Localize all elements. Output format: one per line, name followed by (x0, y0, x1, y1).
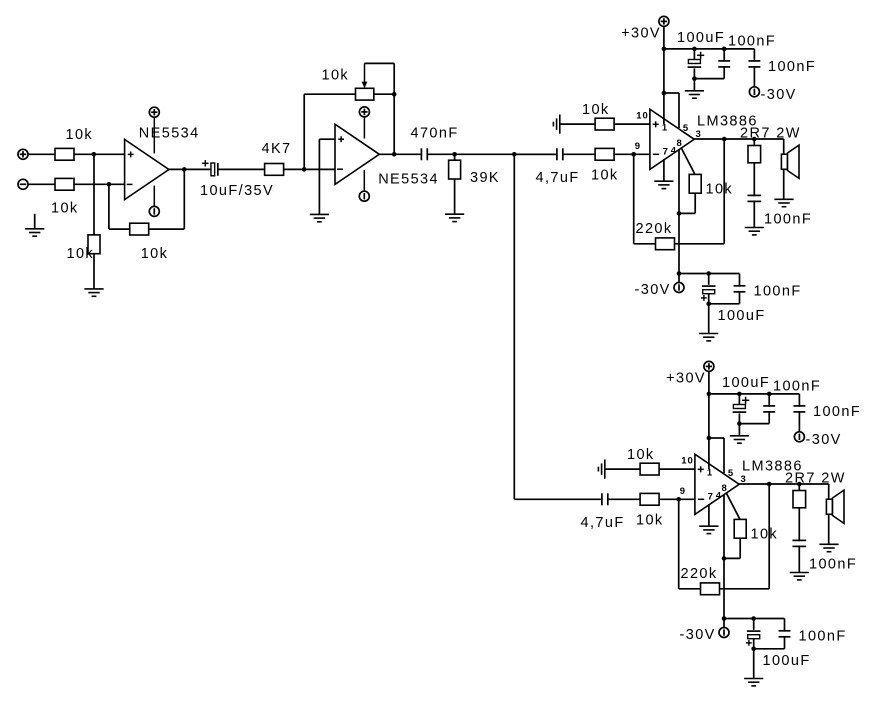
wire speaker to ground (channel 2) (828, 514, 830, 544)
svg-text:100uF: 100uF (677, 30, 725, 46)
ground (U3 +input) (channel 2) (598, 460, 604, 479)
U2 V- power pin (363, 170, 365, 191)
junction pin4 line / -30V rail (channel 2) (722, 616, 727, 621)
speaker LS2 (channel 2) (826, 490, 844, 523)
wire pot wiper to right terminal (top) (365, 62, 395, 64)
wire pin 5 branch down (channel 1) (678, 93, 680, 128)
junction +30V / pin 5 branch (channel 1) (662, 91, 667, 96)
wire pin 8 diagonal (channel 2) (726, 493, 740, 520)
wire supply caps bottom (channel 2) (739, 423, 769, 425)
wire +30V down to pin 1 (channel 2) (708, 371, 710, 469)
wire -30V caps to ground (channel 1) (708, 304, 710, 334)
potentiometer P1 wiper arrow (364, 63, 366, 81)
ground (below R3) (84, 289, 103, 296)
svg-text:470nF: 470nF (411, 126, 459, 142)
svg-text:10k: 10k (141, 246, 169, 262)
wire feedback up to output (channel 2) (768, 484, 770, 589)
capacitor C5 100nF (+30V rail) (channel 2) (762, 406, 776, 412)
U1 V- power pin (153, 186, 155, 207)
junction channel split node (512, 152, 517, 157)
svg-text:NE5534: NE5534 (139, 125, 200, 141)
svg-text:100nF: 100nF (728, 33, 776, 49)
junction U3 -input / 220k feedback (channel 2) (676, 497, 681, 502)
svg-text:10k: 10k (627, 447, 655, 463)
wire split node to C3 (channel 1) (514, 153, 557, 155)
wire through 100uF (channel 2) (738, 394, 740, 424)
capacitor C6 100nF (rail-to-rail) (channel 2) (792, 406, 806, 412)
wire through 100nF (channel 2) (768, 394, 770, 424)
junction supply caps bottom (channel 2) (737, 421, 742, 426)
terminal -30V (rail cap) (channel 2) (794, 432, 804, 442)
wire through 100nF rail-to-rail (channel 1) (753, 49, 755, 87)
junction 100uF top (-30V) (channel 2) (751, 616, 756, 621)
svg-text:100nF: 100nF (799, 628, 847, 644)
ground (speaker) (channel 1) (774, 199, 793, 206)
resistor R4 10k (U1 feedback) (130, 223, 149, 235)
svg-text:10k: 10k (706, 182, 734, 198)
resistor R2 10k (IN- series) (55, 178, 74, 190)
ground (U3 +input) (channel 1) (553, 115, 559, 134)
capacitor C9 100nF (-30V rail) (channel 2) (778, 631, 792, 637)
resistor R9 220k (feedback) (channel 1) (656, 238, 675, 250)
wire feedback up to output (channel 1) (723, 139, 725, 244)
wire mute resistor down (channel 1) (694, 175, 696, 214)
potentiometer P1 10k body (356, 88, 374, 100)
wire output to speaker (channel 1) (783, 139, 785, 154)
svg-text:-30V: -30V (806, 432, 842, 448)
svg-text:7: 7 (708, 492, 714, 503)
svg-text:10k: 10k (66, 127, 94, 143)
capacitor C3 4,7uF (channel 2) (602, 492, 608, 506)
svg-text:7: 7 (663, 147, 669, 158)
wire +30V supply cap rail (channel 2) (709, 393, 800, 395)
wire 220k horizontal (channel 2) (679, 588, 770, 590)
junction supply caps bottom (channel 1) (692, 76, 697, 81)
svg-text:100nF: 100nF (764, 211, 812, 227)
wire through 100uF (channel 1) (693, 49, 695, 79)
capacitor C7 100nF (Zobel) (channel 2) (791, 540, 807, 546)
wire through 100nF (channel 1) (723, 49, 725, 79)
wire ground/R7 to U3 +input (channel 1) (560, 123, 650, 125)
resistor R9 220k (feedback) (channel 2) (701, 583, 720, 595)
capacitor C8 100uF (-30V rail) (channel 2) (747, 630, 761, 639)
capacitor C4 100uF (+30V rail) (channel 1) (687, 59, 701, 68)
wire through 100nF (-30V) (channel 2) (784, 619, 786, 649)
svg-text:10k: 10k (582, 102, 610, 118)
junction mute resistor / pin 4 line (channel 1) (677, 211, 682, 216)
svg-text:1: 1 (707, 468, 713, 479)
ground (pin 7) (channel 2) (699, 526, 718, 533)
capacitor C4 100uF polarity mark (channel 2) (742, 399, 749, 401)
wire -30V terminal stem (channel 2) (723, 619, 725, 628)
wire split node to C3 (channel 2) (514, 498, 602, 500)
wire 220k horizontal (channel 1) (634, 243, 725, 245)
svg-text:100nF: 100nF (768, 59, 816, 75)
svg-text:100nF: 100nF (813, 404, 861, 420)
junction pin4 line / -30V rail (channel 1) (677, 271, 682, 276)
svg-text:9: 9 (680, 486, 686, 497)
junction U2 -input / feedback (302, 167, 307, 172)
svg-text:100uF: 100uF (763, 653, 811, 669)
junction output / feedback (channel 2) (767, 482, 772, 487)
ground (U2 +input) (310, 214, 329, 221)
wire -input down to 220k (channel 1) (633, 154, 635, 244)
resistor R8 10k (-input series) (channel 1) (595, 148, 614, 160)
capacitor C4 100uF (+30V rail) (channel 2) (732, 404, 746, 413)
junction 100nF top (channel 2) (767, 392, 772, 397)
wire output to speaker (channel 2) (828, 484, 830, 499)
wire C1 to R5 to U2 -input (218, 168, 335, 170)
junction output / Zobel (channel 2) (797, 482, 802, 487)
svg-text:220k: 220k (681, 566, 718, 582)
wire -30V rail (channel 2) (724, 618, 785, 620)
wire supply caps to ground (channel 1) (693, 79, 695, 91)
svg-text:5: 5 (683, 123, 689, 134)
junction +30V / supply caps (channel 1) (662, 47, 667, 52)
svg-text:9: 9 (635, 141, 641, 152)
resistor R11 2R7 2W (Zobel) (channel 2) (793, 491, 806, 508)
svg-text:100uF: 100uF (718, 308, 766, 324)
wire 39K to ground (454, 154, 456, 214)
terminal IN- (18, 179, 28, 189)
wire supply caps to ground (channel 2) (738, 424, 740, 436)
junction U2 output / feedback (392, 152, 397, 157)
wire +30V down to pin 1 (channel 1) (663, 26, 665, 124)
junction U3 -input / 220k feedback (channel 1) (631, 152, 636, 157)
op-amp U2 NE5534 (335, 124, 379, 184)
svg-text:39K: 39K (470, 170, 500, 186)
ground (speaker) (channel 2) (819, 544, 838, 551)
resistor R7 10k (+input) (channel 1) (595, 118, 614, 130)
wire mute resistor down (channel 2) (739, 520, 741, 559)
junction 100uF top (-30V) (channel 1) (706, 271, 711, 276)
svg-text:NE5534: NE5534 (378, 171, 439, 187)
capacitor C1 10uF/35V polarity mark (202, 162, 208, 164)
wire pin 4 down to -30V rail (channel 1) (678, 150, 680, 274)
ground (supply caps) (channel 2) (730, 436, 749, 443)
wire -30V terminal stem (channel 1) (678, 274, 680, 283)
capacitor C2 470nF (421, 147, 427, 161)
svg-text:-30V: -30V (761, 87, 797, 103)
svg-text:2R7 2W: 2R7 2W (785, 470, 846, 486)
op-amp U3 LM3886 (channel 2) (695, 454, 739, 514)
svg-text:-30V: -30V (680, 627, 716, 643)
svg-text:10uF/35V: 10uF/35V (200, 183, 274, 199)
wire split node down to channel 2 (513, 154, 515, 499)
junction node U1 -input / feedback (107, 182, 112, 187)
wire IN+ to op-amp U1 +input (28, 153, 125, 155)
wire U2 output (379, 153, 421, 155)
wire speaker to ground (channel 1) (783, 169, 785, 199)
wire pin 4 down to -30V rail (channel 2) (723, 495, 725, 619)
ground (below R6) (445, 214, 464, 221)
wire ground stub (input) (34, 214, 36, 229)
speaker LS1 (channel 1) (781, 145, 799, 178)
svg-text:4,7uF: 4,7uF (581, 515, 625, 531)
wire IN- to op-amp U1 -input (28, 183, 125, 185)
wire pot left to U2 -input (303, 94, 305, 169)
wire pin 8 diagonal (channel 1) (681, 148, 695, 175)
wire pin 5 branch down (channel 2) (723, 438, 725, 473)
svg-text:10k: 10k (51, 200, 79, 216)
wire pin 7 to ground (channel 2) (708, 504, 710, 526)
capacitor C8 100uF polarity mark (channel 1) (701, 297, 707, 299)
wire -30V caps bottom (channel 2) (754, 648, 785, 650)
junction -30V caps bottom (channel 2) (751, 647, 756, 652)
capacitor C9 100nF (-30V rail) (channel 1) (733, 286, 747, 292)
svg-text:+30V: +30V (666, 370, 706, 386)
wire through 100nF rail-to-rail (channel 2) (798, 394, 800, 432)
junction 100nF top (channel 1) (722, 47, 727, 52)
junction mute resistor / pin 4 line (channel 2) (722, 556, 727, 561)
terminal +30V (channel 1) (659, 16, 669, 26)
svg-text:100nF: 100nF (773, 378, 821, 394)
capacitor C4 100uF polarity mark (channel 1) (697, 54, 704, 56)
wire U2 +input to ground (318, 139, 320, 214)
ground (Zobel) (channel 2) (790, 573, 809, 580)
svg-text:4,7uF: 4,7uF (536, 170, 580, 186)
wire U1 output (169, 168, 212, 170)
terminal U1 V+ (+30V) (149, 107, 159, 117)
junction 100uF top (channel 2) (737, 392, 742, 397)
svg-text:10k: 10k (751, 527, 779, 543)
resistor R6 39K (shunt) (449, 160, 461, 179)
terminal -30V (channel 1) (674, 283, 684, 293)
resistor R3 10k (to ground) (88, 235, 100, 254)
junction pot right terminal (392, 92, 397, 97)
junction 100uF top (channel 1) (692, 47, 697, 52)
wire +30V supply cap rail (channel 1) (664, 48, 755, 50)
wire pin 7 to ground (channel 1) (663, 159, 665, 181)
svg-text:-30V: -30V (635, 282, 671, 298)
svg-text:10: 10 (681, 456, 694, 467)
svg-text:10k: 10k (322, 67, 350, 83)
wire -30V caps to ground (channel 2) (753, 649, 755, 679)
ground (-30V caps) (channel 1) (699, 334, 718, 341)
terminal U2 V- (-30V) (359, 191, 369, 201)
wire C3/R8 to U3 -input (channel 1) (563, 153, 650, 155)
junction output / Zobel (channel 1) (752, 137, 757, 142)
svg-text:4K7: 4K7 (262, 141, 292, 157)
wire mute resistor to pin 4 line (channel 2) (724, 557, 740, 559)
svg-text:100uF: 100uF (722, 375, 770, 391)
wire pot right terminal (374, 93, 394, 95)
svg-text:220k: 220k (636, 221, 673, 237)
terminal U1 V- (-30V) (149, 206, 159, 216)
terminal -30V (rail cap) (channel 1) (749, 87, 759, 97)
wire through 100nF (-30V) (channel 1) (739, 274, 741, 304)
capacitor C1 10uF/35V (211, 162, 218, 176)
wire U2 +input (319, 138, 335, 140)
wire node IN+ down to R3 and ground (93, 154, 95, 289)
wire -input down to 220k (channel 2) (678, 499, 680, 589)
junction +30V / supply caps (channel 2) (707, 392, 712, 397)
capacitor C5 100nF (+30V rail) (channel 1) (717, 61, 731, 67)
U2 V+ power pin (363, 117, 365, 139)
svg-text:10k: 10k (591, 168, 619, 184)
resistor R10 10k (mute) (channel 2) (734, 519, 746, 538)
wire U3 output (channel 2) (739, 483, 829, 485)
terminal U2 V+ (+30V) (359, 107, 369, 117)
wire through 100uF (-30V) (channel 2) (753, 619, 755, 649)
svg-text:10k: 10k (636, 513, 664, 529)
junction U1 output / feedback (182, 167, 187, 172)
ground (input common) (25, 229, 44, 236)
junction 39K shunt (452, 152, 457, 157)
capacitor C8 100uF polarity mark (channel 2) (746, 642, 752, 644)
junction output / feedback (channel 1) (722, 137, 727, 142)
U1 V+ power pin (153, 117, 155, 153)
wire U1 feedback bottom horizontal (109, 228, 184, 230)
wire U3 output (channel 1) (694, 138, 784, 140)
svg-text:1: 1 (662, 123, 668, 134)
wire -30V caps bottom (channel 1) (709, 303, 740, 305)
capacitor C6 100nF (rail-to-rail) (channel 1) (747, 61, 761, 67)
svg-text:2R7 2W: 2R7 2W (740, 125, 801, 141)
ground (Zobel) (channel 1) (745, 228, 764, 235)
wire pin 5 branch horizontal (channel 1) (664, 92, 679, 94)
svg-text:10k: 10k (67, 246, 95, 262)
op-amp U1 NE5534 (125, 139, 169, 199)
wire pot left terminal (304, 93, 355, 95)
wire U1 feedback right vertical (183, 169, 185, 229)
wire U1 feedback left vertical (108, 184, 110, 229)
wire mute resistor to pin 4 line (channel 1) (679, 212, 695, 214)
wire pin 5 branch horizontal (channel 2) (709, 437, 724, 439)
svg-text:5: 5 (728, 468, 734, 479)
wire ground/R7 to U3 +input (channel 2) (605, 468, 695, 470)
capacitor C8 100uF (-30V rail) (channel 1) (702, 285, 716, 294)
capacitor C3 4,7uF (channel 1) (557, 147, 563, 161)
ground (supply caps) (channel 1) (685, 91, 704, 98)
ground (pin 7) (channel 1) (654, 181, 673, 188)
ground (-30V caps) (channel 2) (744, 679, 763, 686)
wire C2 to channel split (427, 153, 557, 155)
wire Zobel (channel 1) (753, 139, 755, 228)
resistor R1 10k (IN+ series) (55, 148, 74, 160)
junction node IN+ / R3 (92, 152, 97, 157)
resistor R7 10k (+input) (channel 2) (640, 463, 659, 475)
resistor R10 10k (mute) (channel 1) (689, 174, 701, 193)
terminal +30V (channel 2) (704, 361, 714, 371)
svg-text:10: 10 (636, 111, 649, 122)
resistor R11 2R7 2W (Zobel) (channel 1) (748, 146, 761, 163)
capacitor C7 100nF (Zobel) (channel 1) (746, 195, 762, 201)
wire -30V rail (channel 1) (679, 273, 740, 275)
wire supply caps bottom (channel 1) (694, 78, 724, 80)
resistor R8 10k (-input series) (channel 2) (640, 493, 659, 505)
wire C3/R8 to U3 -input (channel 2) (608, 498, 695, 500)
junction -30V caps bottom (channel 1) (706, 302, 711, 307)
terminal -30V (channel 2) (719, 628, 729, 638)
op-amp U3 LM3886 (channel 1) (650, 109, 694, 169)
wire pot right down to U2 output (393, 63, 395, 154)
resistor R5 4K7 (265, 164, 284, 176)
svg-text:+30V: +30V (621, 25, 661, 41)
wire Zobel (channel 2) (798, 484, 800, 573)
wire through 100uF (-30V) (channel 1) (708, 274, 710, 304)
terminal IN+ (18, 149, 28, 159)
junction +30V / pin 5 branch (channel 2) (707, 436, 712, 441)
svg-text:100nF: 100nF (809, 556, 857, 572)
svg-text:100nF: 100nF (754, 283, 802, 299)
